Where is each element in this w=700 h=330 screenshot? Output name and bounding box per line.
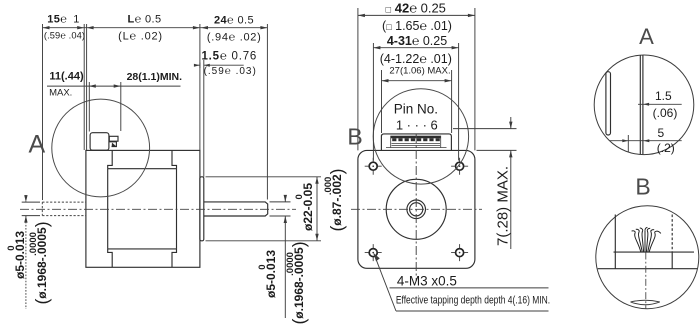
dim text 11(.44) — [49, 72, 83, 83]
dim text 28(1.1)MIN. — [127, 72, 182, 83]
connector top chord — [614, 251, 695, 253]
detail circle A (side view) — [52, 99, 150, 197]
ext line 15-right / L-left pair — [83, 24, 85, 150]
connector latch — [109, 142, 116, 147]
ext: shaft end up — [266, 24, 268, 200]
front view center lines — [351, 134, 482, 281]
wire tips curl — [632, 231, 636, 232]
rotated tol text (o.1968) left — [36, 221, 48, 304]
ext: connector left face — [88, 82, 90, 132]
top chained dim line 15 / L / 24 — [43, 27, 268, 29]
ext 42 left/right — [358, 8, 475, 150]
7max arrows (outside pointing in) — [509, 122, 512, 129]
27 arrows — [382, 79, 389, 82]
dim line 1.5 underline — [638, 103, 682, 105]
label Pin No. — [394, 102, 438, 116]
ext: boss face up — [203, 60, 205, 177]
15 dim arrows — [43, 26, 50, 29]
connector housing (front) — [381, 134, 451, 151]
ext line 15-left (rear shaft end) — [42, 24, 44, 200]
detail A dim (.2) — [657, 142, 675, 154]
latch wedge (dark) — [112, 143, 117, 147]
detail A dim 5 — [657, 127, 664, 139]
dim line 5 (through strip) — [610, 140, 682, 142]
detail A dim 1.5 — [655, 90, 672, 102]
dim line 28(1.1)MIN with 11(.44) underline — [47, 85, 181, 87]
detail label A — [639, 26, 654, 48]
stack contour bottom — [108, 249, 177, 267]
stack side left — [107, 169, 109, 249]
connector body (side view) — [90, 133, 109, 151]
dim text L±0.5 — [127, 15, 161, 26]
arrowheads — [24, 26, 318, 241]
42 arrows — [358, 14, 365, 17]
pin teeth — [392, 138, 396, 141]
24 dim arrows — [201, 26, 208, 29]
housing wall left — [614, 215, 616, 253]
dim text 7(.28) MAX. rotated — [496, 166, 511, 246]
L dim arrows — [87, 26, 94, 29]
dim 27 — [382, 80, 452, 82]
dim text 1.5±0.76 — [201, 52, 257, 64]
dim line o5 front — [284, 196, 286, 319]
4-M3 leader arrowhead — [374, 253, 380, 261]
4-M3 leader and note box — [374, 254, 549, 312]
dim text (L±.02) — [118, 31, 163, 42]
connector box sides — [615, 252, 672, 269]
o5 front arrows — [284, 195, 287, 202]
flange square — [358, 150, 475, 268]
shaft circle — [410, 203, 423, 216]
detail circle B (front view) — [373, 89, 468, 184]
dim text (4-1.22±.01) — [380, 52, 452, 65]
detail B circle — [596, 206, 699, 309]
motor body outer rect (side view) — [86, 150, 200, 267]
dim text (.59±.04) — [44, 32, 85, 41]
dim line o22 — [316, 177, 318, 241]
o22 arrows — [315, 177, 318, 184]
detail label B — [635, 175, 650, 198]
ext lines shaft top/bottom right — [270, 202, 291, 216]
shaft edge double line — [640, 55, 643, 154]
detail A dim (.06) — [653, 107, 678, 119]
boss strip — [606, 72, 611, 135]
ext: 28min right — [120, 82, 122, 131]
rotated tol text (o.1968) center — [293, 241, 305, 324]
1.5 arrow — [643, 103, 649, 106]
dim text square 42±0.25 — [386, 1, 446, 14]
28 min arrows (outward) — [89, 84, 96, 87]
dim text (.94±.02) — [207, 32, 262, 43]
connector dark innards — [391, 136, 441, 142]
dim text 4-31±0.25 — [387, 35, 447, 48]
stack contour top — [108, 150, 177, 168]
hole tick marks — [365, 158, 382, 175]
ext: body right edge up — [199, 60, 201, 150]
header top bar — [391, 136, 441, 139]
ext 27 — [382, 70, 452, 133]
dim text (square 1.65±.01) — [382, 19, 452, 32]
dim line o5 left — [25, 195, 27, 309]
rotated tol text o22 — [302, 182, 314, 230]
boss (pilot) edge-on — [200, 177, 204, 241]
view label A (side view) — [28, 132, 45, 157]
dim text 27(1.06) MAX. — [389, 66, 450, 76]
dim 7max — [510, 117, 512, 249]
ext line 5-dim — [627, 135, 629, 152]
center line (side view) — [20, 208, 296, 210]
detail B center line — [645, 253, 647, 309]
dim text MAX. — [49, 88, 72, 98]
1.5 dim arrows — [194, 64, 200, 67]
dim 42 — [358, 14, 475, 16]
view label B (front view) — [347, 126, 362, 149]
rotated tol text o5 center — [265, 250, 277, 298]
dim 31 — [373, 47, 458, 49]
stack side right — [176, 169, 178, 249]
dim text 24±0.5 — [214, 15, 254, 26]
wire bundle — [632, 227, 661, 252]
dim line 1.5 underline — [198, 63, 244, 69]
rotated tol text o5 left — [14, 231, 26, 279]
pilot circle — [386, 179, 446, 239]
label 4-M3 x0.5 — [397, 275, 457, 289]
linework placeholder — [86, 133, 268, 268]
hidden rear shaft (dotted) — [42, 202, 86, 216]
o5 left arrows — [24, 195, 27, 202]
ext lines boss top/bottom (o22) — [206, 177, 322, 241]
dim text 15±1 — [47, 15, 80, 26]
ext 7max top/bottom — [453, 129, 517, 151]
5 arrows — [622, 139, 628, 142]
ext 31 — [373, 43, 458, 161]
label 1...6 — [396, 118, 438, 131]
connector inner lines — [391, 136, 441, 148]
shaft (side view) — [204, 202, 268, 216]
shaft hub circle — [407, 200, 426, 219]
rotated tol text (o.87) — [331, 169, 343, 232]
dim text (.59±.03) — [204, 67, 257, 77]
detail A circle — [594, 55, 694, 155]
left o5: ext ticks — [22, 202, 40, 216]
mounting holes — [369, 162, 463, 256]
housing wall right (dashed) — [671, 215, 673, 253]
31 arrows — [373, 46, 380, 49]
motor face chord — [598, 268, 698, 270]
bottom lens arcs — [631, 300, 660, 305]
note: effective tapping depth — [396, 296, 550, 307]
connector tab — [109, 136, 118, 141]
